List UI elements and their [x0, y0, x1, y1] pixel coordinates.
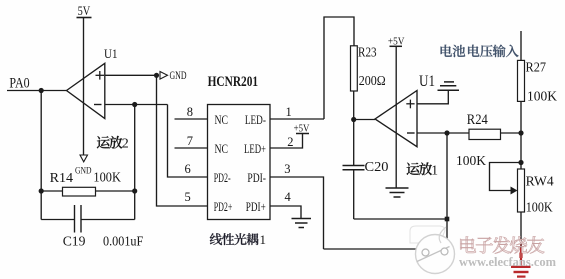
svg-text:PA0: PA0	[9, 76, 29, 92]
svg-text:0.001uF: 0.001uF	[103, 235, 143, 250]
pin 7 stub	[175, 134, 208, 148]
svg-text:5: 5	[185, 190, 191, 204]
+5V supply for op-amp 1	[388, 36, 405, 48]
svg-text:PDI+: PDI+	[246, 199, 266, 214]
pin 8 stub	[175, 105, 208, 119]
ground symbol below op-amp 1	[386, 188, 409, 197]
svg-text:RW4: RW4	[526, 174, 554, 189]
junction R23 / C20 / op-amp1 output	[351, 117, 356, 122]
wire C20 bottom to feedback node	[354, 218, 447, 220]
capacitor C20	[343, 120, 389, 220]
optocoupler HCNR201 (线性光耦1)	[208, 74, 271, 220]
wire - input down to R14 right node	[134, 105, 136, 192]
svg-text:200Ω: 200Ω	[359, 73, 386, 88]
watermark text 电子发烧友	[460, 236, 544, 253]
optocoupler label 线性光耦1	[210, 232, 266, 247]
svg-text:1: 1	[286, 105, 292, 119]
svg-text:100K: 100K	[527, 89, 557, 104]
watermark logo disc	[416, 227, 455, 274]
pin 2 stub wire to +5V	[270, 134, 303, 150]
svg-text:4: 4	[285, 190, 292, 204]
svg-text:LED+: LED+	[244, 141, 266, 156]
junction + input / GND	[154, 73, 159, 78]
wire RW4 bottom	[520, 212, 522, 244]
svg-text:NC: NC	[215, 112, 229, 127]
svg-text:3: 3	[284, 162, 290, 176]
junction RW4 wiper tap	[518, 160, 523, 165]
pin 1 stub wire to R23 riser	[270, 105, 324, 119]
svg-text:100K: 100K	[93, 171, 121, 186]
potentiometer RW4	[490, 163, 554, 215]
wire op-amp2 - input	[105, 104, 168, 106]
svg-text:U1: U1	[419, 73, 435, 90]
svg-text:C19: C19	[63, 235, 86, 250]
svg-text:100K: 100K	[456, 153, 486, 168]
op-amp 2 label 运放2	[97, 136, 129, 152]
svg-text:R23: R23	[358, 46, 377, 61]
wire node to op-amp1 output	[354, 119, 375, 121]
svg-text:NC: NC	[215, 141, 229, 156]
svg-text:1: 1	[260, 232, 267, 247]
wire R24 to R27/RW4 node	[501, 132, 522, 134]
wire R23 bottom to output node	[353, 91, 355, 120]
svg-text:100K: 100K	[526, 200, 553, 215]
junction R24 / R27 / RW4	[518, 130, 523, 135]
wire - input down to optocoupler pin 6	[168, 105, 208, 178]
svg-text:GND: GND	[170, 68, 187, 82]
wire pin1 loop up and over to R23	[324, 17, 354, 119]
bottom rail wire	[324, 248, 448, 250]
svg-text:6: 6	[185, 162, 191, 176]
pin 4 wire to ground	[270, 190, 301, 219]
svg-text:PD2-: PD2-	[214, 170, 231, 185]
wire 5V supply to op-amp U1 power and through to ground flag	[83, 18, 85, 156]
capacitor C19	[41, 191, 143, 250]
op-amp U1 (运放1)	[375, 73, 435, 147]
wire R27 down to junction and RW4	[520, 101, 522, 169]
svg-text:C20: C20	[365, 159, 389, 174]
+5V tap at pin 2	[294, 123, 310, 135]
svg-text:www.elecfans.com: www.elecfans.com	[459, 255, 557, 269]
svg-text:HCNR201: HCNR201	[208, 74, 259, 90]
svg-text:2: 2	[122, 137, 129, 152]
junction PA0 node	[39, 88, 44, 93]
watermark logo bubble	[410, 226, 446, 243]
pin 3 wire down to bottom rail	[270, 162, 324, 249]
svg-text:1: 1	[431, 163, 438, 178]
svg-text:7: 7	[187, 134, 193, 148]
ground symbol at pin 4	[292, 219, 312, 228]
svg-text:R14: R14	[50, 171, 73, 186]
resistor R24	[456, 112, 501, 168]
inverted ground at op-amp1 + input	[417, 82, 459, 104]
red watermark battery element	[511, 244, 531, 277]
wire - node down to bottom rail	[446, 133, 448, 249]
wire op-amp2 + input to GND tap	[105, 74, 157, 76]
GND arrow marker	[160, 68, 187, 82]
power 5V label	[77, 3, 92, 18]
battery voltage input label 电池电压输入	[441, 45, 519, 58]
wire +5V through op-amp1 to ground	[395, 46, 397, 188]
wire battery input to R27	[520, 31, 522, 60]
svg-text:GND: GND	[75, 167, 92, 177]
svg-text:+5V: +5V	[294, 123, 310, 135]
svg-text:R24: R24	[467, 112, 489, 128]
resistor R27	[518, 60, 558, 104]
svg-text:LED-: LED-	[245, 112, 266, 127]
junction R14 left	[39, 188, 44, 193]
wire + input node down to optocoupler pin 5	[157, 75, 208, 206]
junction - input / feedback	[444, 130, 449, 135]
svg-text:PDI-: PDI-	[247, 170, 266, 185]
svg-text:5V: 5V	[78, 3, 91, 18]
resistor R23	[351, 46, 386, 92]
junction - input / feedback	[132, 102, 137, 107]
wire PA0 node down to R14 left node	[40, 91, 42, 192]
svg-text:8: 8	[187, 105, 193, 119]
svg-text:PD2+: PD2+	[214, 199, 233, 214]
op-amp U1 (运放2)	[67, 46, 118, 119]
op-amp 1 label 运放1	[407, 162, 439, 177]
junction feedback / bottom rail	[445, 217, 450, 222]
svg-text:R27: R27	[526, 60, 547, 75]
wire op-amp1 - input to R24	[417, 132, 469, 134]
ground flag below op-amp 2	[75, 155, 92, 177]
junction R14 right	[132, 188, 137, 193]
svg-text:U1: U1	[104, 46, 118, 61]
wire PA0 to op-amp 2 output	[7, 90, 67, 92]
resistor R14	[41, 171, 135, 197]
svg-text:2: 2	[287, 135, 293, 149]
